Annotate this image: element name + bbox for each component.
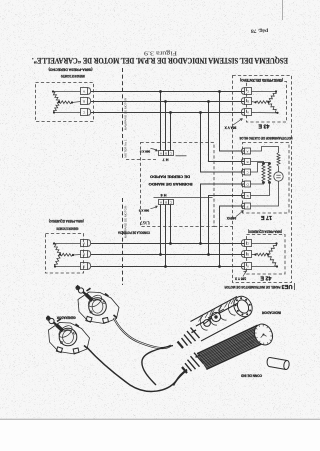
- arrow 165YX: [243, 271, 246, 277]
- wire and junction to H7 pin 1: [160, 92, 162, 151]
- generator 1 connector pin B: [81, 98, 88, 105]
- 17E connector pin A: [245, 148, 251, 154]
- svg-text:pág. 78: pág. 78: [251, 28, 268, 34]
- svg-text:368 X 5: 368 X 5: [138, 208, 149, 212]
- wire generator2 phase B to 42E: [91, 254, 245, 256]
- 42E winding: [268, 244, 277, 255]
- 17E connector pin C: [245, 169, 251, 175]
- arrow 36AVX: [233, 119, 243, 126]
- generator 2 winding: [54, 244, 60, 255]
- 17E connector pin B: [245, 159, 251, 165]
- 43E connector pin A: [245, 109, 252, 116]
- 43E connector pin C: [245, 88, 252, 95]
- wire and junction from H6 pin 2: [160, 205, 162, 255]
- H7 connector pin C: [169, 151, 174, 156]
- generator 2 connector pin B: [81, 251, 88, 258]
- generator 2 connector pin A: [81, 240, 88, 247]
- svg-text:GENERADOR DE TACOMETRO: GENERADOR DE TACOMETRO: [56, 226, 78, 230]
- resistor R3: [277, 153, 280, 167]
- svg-text:A: A: [83, 89, 85, 93]
- arrow 345VX: [236, 211, 244, 217]
- 17E connector pin D: [245, 181, 251, 187]
- H7 side stub: [176, 155, 187, 157]
- svg-text:17 E: 17 E: [261, 214, 272, 220]
- svg-text:H 7: H 7: [163, 157, 169, 161]
- wire and junction from H6 pin 1: [170, 205, 172, 244]
- generator 2 connector pin C: [81, 263, 88, 270]
- svg-text:A: A: [247, 264, 249, 268]
- 43E winding: [269, 92, 277, 103]
- 17E connector pin F: [245, 203, 251, 209]
- tachometer generator unit A (pictorial): [78, 292, 119, 324]
- H7 leader arrow: [151, 149, 158, 152]
- wire and junction gen1 row to 17E pin 2: [209, 102, 245, 162]
- consola boundary dashes: [214, 226, 233, 228]
- H6 connector pin B: [164, 200, 169, 205]
- generator 1 connector pin C: [81, 109, 88, 116]
- svg-text:MOTOR No 1: MOTOR No 1: [124, 139, 128, 158]
- svg-text:ESQUEMA DEL SISTEMA INDICADOR: ESQUEMA DEL SISTEMA INDICADOR DE R.P.M. …: [32, 56, 288, 65]
- wire generator1 phase A to 43E: [91, 91, 245, 93]
- svg-text:A: A: [160, 151, 162, 155]
- svg-text:MAMPARO DE MOTOR: MAMPARO DE MOTOR: [124, 205, 128, 238]
- transmitter flange bolts: [249, 304, 251, 306]
- svg-text:A: A: [83, 241, 85, 245]
- wire generator2 phase C to 42E: [91, 266, 245, 268]
- svg-text:165 Y X: 165 Y X: [234, 277, 246, 281]
- H6 connector pin A: [159, 200, 164, 205]
- svg-text:PANEL DE INSTRUMENTOS DE MOTOR: PANEL DE INSTRUMENTOS DE MOTOR: [224, 285, 280, 289]
- svg-text:A: A: [160, 200, 162, 204]
- transmitter 42E block: [247, 235, 286, 275]
- wire and junction gen2 row to 17E pin 4: [201, 184, 245, 244]
- cable generator B to indicator: [87, 348, 187, 392]
- svg-text:(GIRA-PRESA DERECHO): (GIRA-PRESA DERECHO): [49, 68, 93, 72]
- H6 connector pin C: [169, 200, 174, 205]
- svg-text:B: B: [165, 200, 167, 204]
- cable from indicator hanging down: [174, 370, 188, 386]
- svg-text:MAMPARO DE MOTOR: MAMPARO DE MOTOR: [124, 97, 128, 130]
- generator 1 connector pin A: [81, 88, 88, 95]
- svg-text:B: B: [83, 99, 85, 103]
- H7 connector pin A: [159, 151, 164, 156]
- svg-text:B: B: [246, 160, 248, 164]
- wire and junction gen2 row to 17E pin 6: [220, 206, 245, 267]
- indicator 17E block: [243, 143, 290, 214]
- wire generator2 phase A to 42E: [91, 243, 245, 245]
- svg-text:B: B: [247, 99, 249, 103]
- 42E connector pin C: [245, 240, 252, 247]
- generator 1 winding: [53, 92, 59, 103]
- transmitter 43E block: [247, 82, 287, 123]
- wire p5 to R2 bottom: [251, 183, 270, 196]
- wire and junction gen1 row to 17E pin 1: [220, 92, 245, 152]
- svg-text:INDICADOR: INDICADOR: [261, 311, 281, 315]
- svg-text:MOTOTRANSMISOR DE CUATRO HILOS: MOTOTRANSMISOR DE CUATRO HILOS: [239, 136, 293, 140]
- svg-text:B: B: [165, 151, 167, 155]
- svg-text:BOBINAS DE MANDO: BOBINAS DE MANDO: [148, 182, 192, 186]
- cable generator A to transmitter: [114, 318, 171, 348]
- wire and junction gen2 row to 17E pin 5: [209, 196, 245, 255]
- svg-text:B: B: [247, 252, 249, 256]
- svg-text:CONN DE IND: CONN DE IND: [240, 373, 262, 377]
- generator 1 block: [36, 83, 94, 122]
- wire and junction from H6 pin 3: [165, 205, 167, 267]
- wire generator1 phase C to 43E: [91, 112, 245, 114]
- svg-text:U67: U67: [140, 219, 150, 225]
- H7 connector pin B: [164, 151, 169, 156]
- 43E connector pin B: [245, 98, 252, 105]
- svg-text:UE3: UE3: [282, 283, 293, 289]
- resistor R1: [262, 164, 265, 182]
- svg-text:B: B: [83, 252, 85, 256]
- indicator unit (pictorial): [197, 325, 268, 370]
- control unit U67 block: [141, 143, 215, 227]
- svg-text:368 X 5: 368 X 5: [139, 150, 150, 154]
- page bottom edge: [0, 418, 320, 420]
- svg-text:(GIRA-PRESA IZQUIERDO): (GIRA-PRESA IZQUIERDO): [49, 219, 84, 223]
- H6 leader arrow: [151, 206, 158, 209]
- svg-text:345VX: 345VX: [226, 216, 236, 220]
- 17E internal top rail: [251, 147, 279, 153]
- svg-text:E: E: [246, 194, 248, 198]
- svg-text:42 E: 42 E: [260, 274, 271, 280]
- H6 cap line: [154, 197, 213, 199]
- 42E connector pin B: [245, 251, 252, 258]
- side connector cylinder: [267, 357, 290, 370]
- generator 2 block: [46, 234, 84, 274]
- wire and junction to H7 pin 2: [165, 102, 167, 151]
- wire p3 to R2: [251, 163, 270, 173]
- resistor R2: [268, 164, 271, 182]
- transmitter unit (pictorial): [178, 293, 256, 348]
- svg-text:DE CIERRE RAPIDO: DE CIERRE RAPIDO: [150, 174, 190, 178]
- firewall divider: [122, 68, 124, 160]
- 42E connector pin A: [245, 263, 252, 270]
- wire p2 to R1: [251, 162, 264, 164]
- svg-text:Figura 3.9: Figura 3.9: [144, 49, 177, 56]
- svg-text:A: A: [247, 110, 249, 114]
- tachometer generator unit B (pictorial): [49, 323, 90, 355]
- synchro motor M: [274, 172, 283, 181]
- svg-text:(GIRA-PRESA IZQUIERDO): (GIRA-PRESA IZQUIERDO): [248, 230, 282, 234]
- UE3 panel boundary: [233, 76, 292, 283]
- svg-text:36A V X: 36A V X: [224, 126, 237, 130]
- svg-text:F: F: [246, 204, 248, 208]
- svg-text:H 6: H 6: [161, 193, 167, 197]
- wire p4 to R1 bottom: [251, 183, 264, 185]
- wire generator1 phase B to 43E: [91, 101, 245, 103]
- crease mark top right: [282, 0, 284, 20]
- svg-text:A: A: [246, 149, 248, 153]
- 17E connector pin E: [245, 193, 251, 199]
- svg-text:43 E: 43 E: [258, 122, 269, 128]
- wire and junction gen1 row to 17E pin 3: [201, 113, 245, 173]
- svg-text:GENERADOR DE TACOMETRO: GENERADOR DE TACOMETRO: [61, 74, 85, 78]
- cable from transmitter hanging down: [142, 346, 173, 386]
- wire and junction to H7 pin 3: [170, 113, 172, 151]
